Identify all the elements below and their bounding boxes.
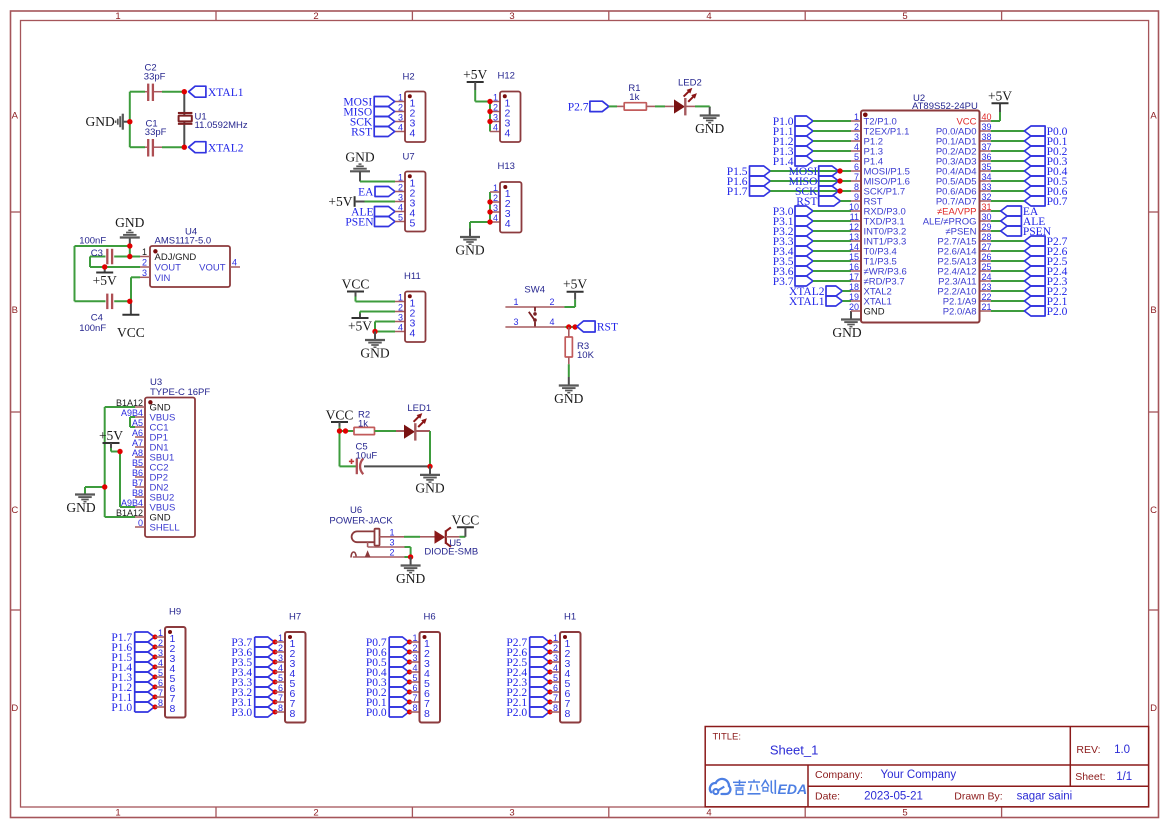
svg-text:3: 3 <box>513 317 518 327</box>
svg-text:P2.0: P2.0 <box>506 707 527 719</box>
svg-text:B: B <box>12 305 18 316</box>
svg-text:4: 4 <box>398 203 403 213</box>
svg-text:6: 6 <box>553 683 558 693</box>
svg-text:D: D <box>11 703 18 714</box>
svg-text:+5V: +5V <box>463 67 487 82</box>
svg-text:B8: B8 <box>132 488 143 498</box>
svg-text:+5V: +5V <box>93 273 117 288</box>
svg-text:SW4: SW4 <box>524 285 545 296</box>
svg-text:2: 2 <box>398 303 403 313</box>
svg-text:LED2: LED2 <box>678 77 702 88</box>
svg-text:4: 4 <box>553 663 558 673</box>
svg-text:Sheet:: Sheet: <box>1075 771 1105 783</box>
svg-text:3: 3 <box>389 537 394 547</box>
svg-text:GND: GND <box>455 243 484 258</box>
svg-text:2: 2 <box>389 547 394 557</box>
svg-text:19: 19 <box>849 292 859 302</box>
svg-text:16: 16 <box>849 262 859 272</box>
svg-text:2: 2 <box>398 183 403 193</box>
svg-text:GND: GND <box>66 500 95 515</box>
svg-text:B5: B5 <box>132 458 143 468</box>
svg-text:3: 3 <box>142 268 147 278</box>
svg-text:P0.0: P0.0 <box>366 707 387 719</box>
svg-text:35: 35 <box>982 162 992 172</box>
svg-text:H7: H7 <box>289 612 301 623</box>
svg-text:4: 4 <box>505 218 511 230</box>
svg-text:GND: GND <box>864 307 885 318</box>
svg-text:4: 4 <box>412 663 417 673</box>
svg-text:3: 3 <box>278 653 283 663</box>
svg-text:5: 5 <box>398 213 403 223</box>
svg-text:H2: H2 <box>403 72 415 83</box>
svg-text:XTAL1: XTAL1 <box>789 296 825 308</box>
svg-text:AMS1117-5.0: AMS1117-5.0 <box>155 236 212 247</box>
svg-text:7: 7 <box>158 688 163 698</box>
svg-text:REV:: REV: <box>1076 744 1100 756</box>
svg-text:4: 4 <box>410 328 416 340</box>
svg-text:25: 25 <box>982 262 992 272</box>
svg-text:40: 40 <box>982 112 992 122</box>
svg-text:U7: U7 <box>403 152 415 163</box>
svg-text:POWER-JACK: POWER-JACK <box>329 516 393 527</box>
svg-text:VCC: VCC <box>326 408 354 423</box>
svg-text:2: 2 <box>854 122 859 132</box>
svg-text:6: 6 <box>854 162 859 172</box>
svg-text:8: 8 <box>553 703 558 713</box>
svg-text:XTAL1: XTAL1 <box>208 87 244 99</box>
svg-text:3: 3 <box>398 113 403 123</box>
svg-text:1: 1 <box>398 93 403 103</box>
svg-text:6: 6 <box>278 683 283 693</box>
svg-text:EDA: EDA <box>778 781 808 797</box>
svg-text:DIODE-SMB: DIODE-SMB <box>424 547 478 558</box>
svg-text:11: 11 <box>850 212 859 222</box>
svg-text:1: 1 <box>493 183 498 193</box>
svg-text:B6: B6 <box>132 468 143 478</box>
svg-text:4: 4 <box>493 213 498 223</box>
svg-text:GND: GND <box>832 325 861 340</box>
svg-text:VCC: VCC <box>452 513 480 528</box>
svg-text:5: 5 <box>902 808 907 819</box>
svg-text:100nF: 100nF <box>79 323 106 334</box>
svg-text:A6: A6 <box>132 428 143 438</box>
svg-text:A9B4: A9B4 <box>121 498 143 508</box>
svg-text:14: 14 <box>849 242 859 252</box>
svg-text:1: 1 <box>398 293 403 303</box>
svg-text:0: 0 <box>138 518 143 528</box>
svg-text:VCC: VCC <box>117 325 145 340</box>
svg-text:VOUT: VOUT <box>199 263 226 274</box>
svg-text:2: 2 <box>313 11 318 22</box>
svg-text:H6: H6 <box>424 612 436 623</box>
svg-text:1: 1 <box>854 112 859 122</box>
svg-text:A8: A8 <box>132 448 143 458</box>
svg-text:7: 7 <box>278 693 283 703</box>
svg-text:1: 1 <box>412 633 417 643</box>
svg-text:18: 18 <box>849 282 859 292</box>
svg-text:10: 10 <box>849 202 859 212</box>
svg-text:GND: GND <box>415 480 444 495</box>
svg-text:100nF: 100nF <box>79 235 106 246</box>
svg-text:H11: H11 <box>404 271 421 282</box>
svg-text:1k: 1k <box>358 418 368 429</box>
svg-text:5: 5 <box>412 673 417 683</box>
svg-text:+5V: +5V <box>563 277 587 292</box>
svg-text:VCC: VCC <box>342 277 370 292</box>
svg-text:B7: B7 <box>132 478 143 488</box>
svg-text:SHELL: SHELL <box>150 523 180 534</box>
svg-text:EA: EA <box>358 187 374 199</box>
svg-text:30: 30 <box>982 212 992 222</box>
svg-text:5: 5 <box>158 668 163 678</box>
svg-text:1/1: 1/1 <box>1116 771 1132 783</box>
svg-text:XTAL2: XTAL2 <box>208 142 244 154</box>
svg-text:4: 4 <box>493 123 498 133</box>
svg-text:3: 3 <box>509 808 514 819</box>
svg-text:3: 3 <box>398 313 403 323</box>
svg-text:7: 7 <box>854 172 859 182</box>
svg-text:17: 17 <box>849 272 859 282</box>
svg-text:2: 2 <box>412 643 417 653</box>
svg-text:ADJ/GND: ADJ/GND <box>155 252 197 263</box>
svg-text:GND: GND <box>360 346 389 361</box>
svg-text:B1A12: B1A12 <box>116 508 143 518</box>
svg-text:24: 24 <box>982 272 992 282</box>
svg-text:U6: U6 <box>350 505 362 516</box>
svg-text:3: 3 <box>493 113 498 123</box>
svg-text:A9B4: A9B4 <box>121 408 143 418</box>
svg-text:1: 1 <box>513 297 518 307</box>
svg-text:C: C <box>1150 505 1157 516</box>
svg-text:21: 21 <box>982 302 992 312</box>
svg-text:33: 33 <box>982 182 992 192</box>
svg-text:3: 3 <box>493 203 498 213</box>
svg-text:3: 3 <box>412 653 417 663</box>
svg-text:4: 4 <box>410 128 416 140</box>
svg-text:5: 5 <box>278 673 283 683</box>
svg-text:3: 3 <box>398 193 403 203</box>
svg-text:4: 4 <box>505 128 511 140</box>
svg-text:D: D <box>1150 703 1157 714</box>
svg-text:A: A <box>1150 111 1157 122</box>
svg-text:P2.0/A8: P2.0/A8 <box>943 307 977 318</box>
svg-text:A: A <box>12 111 19 122</box>
svg-text:6: 6 <box>412 683 417 693</box>
svg-text:2: 2 <box>493 193 498 203</box>
svg-text:7: 7 <box>553 693 558 703</box>
svg-text:AT89S52-24PU: AT89S52-24PU <box>912 101 978 112</box>
svg-text:2: 2 <box>313 808 318 819</box>
svg-text:Date:: Date: <box>815 791 840 803</box>
svg-text:GND: GND <box>86 114 115 129</box>
svg-text:27: 27 <box>982 242 992 252</box>
svg-text:13: 13 <box>849 232 859 242</box>
svg-text:2: 2 <box>278 643 283 653</box>
svg-text:Your Company: Your Company <box>881 769 957 781</box>
svg-text:Drawn By:: Drawn By: <box>954 791 1002 803</box>
svg-text:B: B <box>1150 305 1156 316</box>
svg-text:11.0592MHz: 11.0592MHz <box>195 120 248 131</box>
svg-text:31: 31 <box>982 202 992 212</box>
svg-text:1: 1 <box>158 628 163 638</box>
svg-text:+5V: +5V <box>988 88 1012 103</box>
svg-text:P2.0: P2.0 <box>1047 306 1068 318</box>
svg-text:2: 2 <box>398 103 403 113</box>
svg-text:4: 4 <box>549 317 554 327</box>
svg-text:GND: GND <box>115 215 144 230</box>
svg-text:4: 4 <box>398 323 403 333</box>
svg-text:B1A12: B1A12 <box>116 398 143 408</box>
svg-text:C3: C3 <box>91 248 103 259</box>
svg-text:10uF: 10uF <box>356 450 378 461</box>
svg-text:PSEN: PSEN <box>345 217 374 229</box>
svg-text:3: 3 <box>158 648 163 658</box>
svg-text:4: 4 <box>854 142 859 152</box>
svg-text:Company:: Company: <box>815 769 863 781</box>
svg-text:39: 39 <box>982 122 992 132</box>
svg-text:33pF: 33pF <box>145 127 167 138</box>
svg-text:2: 2 <box>142 258 147 268</box>
svg-text:29: 29 <box>982 222 992 232</box>
svg-text:H13: H13 <box>498 161 515 172</box>
svg-text:TITLE:: TITLE: <box>713 732 742 743</box>
svg-text:2: 2 <box>553 643 558 653</box>
svg-text:26: 26 <box>982 252 992 262</box>
svg-text:4: 4 <box>278 663 283 673</box>
svg-text:P1.7: P1.7 <box>727 186 748 198</box>
svg-text:8: 8 <box>158 698 163 708</box>
svg-text:H1: H1 <box>564 612 576 623</box>
svg-text:RST: RST <box>351 127 372 139</box>
svg-text:P1.0: P1.0 <box>111 702 132 714</box>
svg-text:Sheet_1: Sheet_1 <box>770 743 818 758</box>
svg-text:+5V: +5V <box>99 428 123 443</box>
svg-text:5: 5 <box>854 152 859 162</box>
svg-text:1: 1 <box>142 247 147 257</box>
svg-text:4: 4 <box>158 658 163 668</box>
svg-text:32: 32 <box>982 192 992 202</box>
svg-text:A7: A7 <box>132 438 143 448</box>
svg-text:28: 28 <box>982 232 992 242</box>
svg-text:TYPE-C 16PF: TYPE-C 16PF <box>150 387 210 398</box>
svg-text:H9: H9 <box>169 607 181 618</box>
svg-text:1: 1 <box>389 527 394 537</box>
svg-text:23: 23 <box>982 282 992 292</box>
svg-text:P3.0: P3.0 <box>231 707 252 719</box>
svg-text:5: 5 <box>553 673 558 683</box>
svg-text:9: 9 <box>854 192 859 202</box>
svg-text:4: 4 <box>232 258 237 268</box>
svg-text:10K: 10K <box>577 350 595 361</box>
svg-text:GND: GND <box>695 121 724 136</box>
svg-text:15: 15 <box>849 252 859 262</box>
svg-text:3: 3 <box>509 11 514 22</box>
svg-text:LED1: LED1 <box>407 403 431 414</box>
svg-text:36: 36 <box>982 152 992 162</box>
svg-text:12: 12 <box>849 222 859 232</box>
svg-text:GND: GND <box>396 571 425 586</box>
svg-text:+5V: +5V <box>348 319 372 334</box>
svg-text:sagar saini: sagar saini <box>1017 791 1073 803</box>
svg-text:7: 7 <box>412 693 417 703</box>
svg-text:GND: GND <box>345 150 374 165</box>
svg-text:VIN: VIN <box>155 273 171 284</box>
svg-text:1: 1 <box>398 173 403 183</box>
svg-text:4: 4 <box>706 808 711 819</box>
svg-text:34: 34 <box>982 172 992 182</box>
svg-text:1k: 1k <box>629 92 639 103</box>
svg-text:20: 20 <box>849 302 859 312</box>
svg-text:2: 2 <box>158 638 163 648</box>
svg-text:4: 4 <box>706 11 711 22</box>
svg-text:8: 8 <box>424 708 430 720</box>
svg-text:1: 1 <box>115 11 120 22</box>
svg-text:1: 1 <box>493 93 498 103</box>
svg-text:C4: C4 <box>91 313 103 324</box>
svg-text:8: 8 <box>278 703 283 713</box>
svg-text:8: 8 <box>565 708 571 720</box>
svg-text:1: 1 <box>115 808 120 819</box>
svg-text:3: 3 <box>553 653 558 663</box>
svg-text:H12: H12 <box>498 71 515 82</box>
svg-text:38: 38 <box>982 132 992 142</box>
svg-text:P2.7: P2.7 <box>568 102 589 114</box>
svg-text:1.0: 1.0 <box>1114 744 1130 756</box>
svg-text:22: 22 <box>982 292 992 302</box>
svg-text:2: 2 <box>549 297 554 307</box>
svg-text:1: 1 <box>278 633 283 643</box>
svg-text:5: 5 <box>410 218 416 230</box>
svg-text:3: 3 <box>854 132 859 142</box>
svg-text:C: C <box>11 505 18 516</box>
svg-text:6: 6 <box>158 678 163 688</box>
svg-text:8: 8 <box>412 703 417 713</box>
svg-text:1: 1 <box>553 633 558 643</box>
svg-text:RST: RST <box>597 322 618 334</box>
svg-text:A5: A5 <box>132 418 143 428</box>
svg-text:4: 4 <box>398 123 403 133</box>
svg-text:2023-05-21: 2023-05-21 <box>864 791 923 803</box>
svg-text:2: 2 <box>493 103 498 113</box>
svg-text:8: 8 <box>854 182 859 192</box>
svg-text:GND: GND <box>554 391 583 406</box>
svg-text:8: 8 <box>170 703 176 715</box>
svg-text:+5V: +5V <box>328 194 352 209</box>
svg-text:33pF: 33pF <box>144 71 166 82</box>
svg-text:P0.7: P0.7 <box>1047 196 1068 208</box>
svg-text:37: 37 <box>982 142 992 152</box>
svg-text:5: 5 <box>902 11 907 22</box>
svg-text:8: 8 <box>290 708 296 720</box>
